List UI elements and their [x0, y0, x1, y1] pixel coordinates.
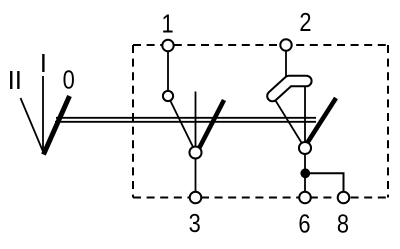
breaker capsule outline: [273, 81, 307, 96]
terminal 2 circle: [280, 39, 291, 50]
terminal 6 circle: [299, 192, 311, 204]
svg-text:II: II: [8, 65, 22, 95]
junction dot: [300, 168, 310, 178]
svg-text:I: I: [40, 48, 47, 78]
svg-text:3: 3: [189, 209, 201, 238]
svg-text:2: 2: [299, 8, 311, 37]
breaker capsule inner: [273, 81, 307, 96]
wire contact leg pole1: [168, 96, 196, 152]
position line II: [21, 98, 44, 152]
pivot circle pole1: [189, 146, 201, 158]
svg-text:0: 0: [63, 66, 75, 95]
branch wire to terminal 8: [305, 173, 344, 191]
moving blade pole1: [200, 100, 225, 148]
wire terminal1 to contact: [167, 46, 169, 97]
terminal 1 circle: [162, 40, 173, 51]
mechanical linkage double line: [56, 117, 316, 119]
wire terminal2 down: [285, 45, 287, 78]
svg-text:8: 8: [337, 210, 349, 239]
dashed enclosure box: [133, 45, 388, 198]
terminal 3 circle: [190, 192, 202, 204]
terminal 8 circle: [338, 192, 350, 204]
wire capsule to pivot vertical: [304, 84, 306, 148]
lever at position 0: [44, 96, 70, 155]
wire pivot to junction to terminal6: [304, 152, 306, 197]
svg-text:1: 1: [162, 10, 174, 39]
wire capsule end to pivot: [273, 97, 305, 148]
pushrod pole1: [195, 92, 197, 198]
pivot circle pole2: [299, 142, 311, 154]
svg-text:6: 6: [298, 210, 310, 239]
position line I: [42, 76, 44, 152]
moving blade pole2: [308, 98, 337, 143]
contact circle pole1: [163, 91, 173, 101]
